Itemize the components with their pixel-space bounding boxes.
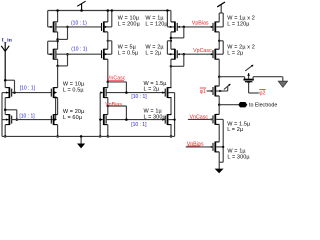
wire A bulk riser to rail bbox=[47, 11, 49, 27]
wire VnCasc horizontal bbox=[108, 81, 127, 83]
arrow A4 bulk (points right) bbox=[6, 118, 9, 120]
wire A4R diode loop to gate bbox=[52, 119, 56, 121]
junction VnBias node bbox=[107, 105, 110, 108]
wire A2 bulk lead bbox=[48, 53, 53, 55]
wire D4 source down bbox=[218, 152, 220, 162]
wire A4R source to ground rail bbox=[57, 125, 59, 137]
wire D1 source up bbox=[218, 13, 220, 22]
wire D2 bulk lead bbox=[216, 53, 223, 55]
svg-text:VnBias: VnBias bbox=[105, 102, 122, 108]
transistor D4 NMOS W=1u L=300u bbox=[212, 143, 214, 151]
svg-text:L = 0.5µ: L = 0.5µ bbox=[63, 88, 84, 94]
wire NMOS pair-1 gate row bbox=[12, 92, 52, 94]
svg-text:[10 : 1]: [10 : 1] bbox=[19, 114, 35, 120]
arrow C3 gate (points right) bbox=[162, 91, 165, 93]
wire D1 drain to D2 source bbox=[218, 32, 220, 49]
junction D2 bulk tie bbox=[218, 40, 220, 42]
junction VnCasc riser on row bbox=[125, 91, 128, 94]
transistor A3 NMOS W=10u L=0.5u bbox=[50, 89, 52, 97]
svg-text:L = 120µ: L = 120µ bbox=[145, 22, 168, 28]
junction C2 bulk tie bbox=[170, 40, 172, 42]
wire A1 diode loop riser bbox=[67, 27, 69, 40]
svg-text:L = 300µ: L = 300µ bbox=[144, 114, 167, 120]
wire A1 bulk lead bbox=[48, 26, 53, 28]
wire VnBias node to B4 drain bbox=[107, 106, 109, 115]
transistor S1 switch phi1 bbox=[212, 87, 214, 95]
svg-text:L = 120µ: L = 120µ bbox=[227, 22, 250, 28]
svg-text:to Electrode: to Electrode bbox=[249, 103, 277, 109]
junction B1 source on rail bbox=[107, 9, 110, 12]
ground symbol right bbox=[218, 162, 220, 169]
transistor A4R NMOS W=20u L=60u bbox=[50, 116, 52, 124]
wire M_in bulk lead bbox=[2, 92, 8, 94]
transistor A1 PMOS 10:1 ref (gate right) bbox=[55, 23, 57, 31]
svg-text:L = 2µ: L = 2µ bbox=[144, 87, 161, 93]
transistor B3 NMOS cascode (gate right) bbox=[105, 89, 107, 97]
wire VnCasc to D3 gate bbox=[188, 118, 214, 120]
junction A1 diode tap on gate row1 bbox=[66, 26, 69, 29]
wire left bulk rail down to ground bbox=[1, 93, 3, 137]
junction ground stem on rail bbox=[80, 135, 83, 138]
svg-text:L = 2µ: L = 2µ bbox=[227, 51, 244, 57]
arrow S1 gate (points right) bbox=[211, 90, 214, 92]
junction VnCasc node bbox=[107, 81, 110, 84]
transistor M_in NMOS input diode (mirrored) bbox=[11, 89, 13, 97]
transistor C4 NMOS W=1u L=300u bbox=[164, 116, 166, 124]
junction VpCasc loop tap bbox=[183, 53, 186, 56]
svg-text:I_in: I_in bbox=[2, 37, 13, 43]
junction VpBias loop tap bbox=[183, 26, 186, 29]
wire B2 drain down to VnCasc node bbox=[107, 59, 109, 82]
svg-text:L = 200µ: L = 200µ bbox=[118, 22, 141, 28]
wire B2 bulk loop riser bbox=[111, 41, 113, 54]
wire A1 diode loop horizontal bbox=[58, 38, 68, 40]
wire C bulk rail to ground bbox=[174, 93, 176, 137]
wire A4R diode loop riser bbox=[55, 98, 57, 120]
wire bias gate row to C4 bbox=[106, 119, 165, 121]
wire VnCasc riser down bbox=[125, 82, 127, 93]
wire D1 bulk up bbox=[222, 13, 224, 27]
transistor A2 PMOS (gate right) bbox=[55, 50, 57, 58]
wire electrode node down to D3 drain bbox=[218, 105, 220, 115]
junction B4 bulk tap bbox=[99, 119, 101, 121]
wire C1 bulk lead bbox=[167, 26, 174, 28]
transistor D3 NMOS W=1.5u L=2u bbox=[212, 115, 214, 123]
wire PMOS gate row 1 bbox=[56, 26, 102, 28]
arrow C2 gate (points left) bbox=[177, 53, 179, 55]
wire A4 diode riser bbox=[16, 110, 18, 120]
junction I_in node bbox=[4, 79, 7, 82]
arrow D1 gate (points right) bbox=[211, 26, 214, 28]
wire D1 bulk lead bbox=[216, 26, 223, 28]
wire A2 bulk loop horizontal bbox=[48, 40, 58, 42]
wire B2 bulk loop horizontal bbox=[108, 40, 112, 42]
wire A1 source to rail bbox=[57, 11, 59, 22]
wire C bulk riser to rail bbox=[166, 11, 168, 27]
wire C4 source to ground rail bbox=[170, 125, 172, 137]
wire D2 drain down to switch node bbox=[218, 59, 220, 76]
wire C2 bulk lead bbox=[167, 53, 174, 55]
wire VpCasc net bbox=[177, 53, 211, 55]
ground symbol left bbox=[80, 136, 82, 143]
junction pair-2 gate tie bbox=[16, 118, 19, 121]
svg-text:φ1: φ1 bbox=[200, 89, 206, 95]
wire switch node to S2 bbox=[219, 76, 244, 78]
arrow B1 bulk (points right) bbox=[105, 26, 108, 28]
svg-text:φ2: φ2 bbox=[259, 90, 265, 96]
power VDD symbol 1 bbox=[81, 4, 83, 11]
junction A1 source on rail bbox=[56, 9, 59, 12]
junction to-Electrode node bbox=[218, 103, 221, 106]
junction A2 bulk tie bbox=[56, 40, 58, 42]
svg-text:L = 2µ: L = 2µ bbox=[227, 127, 244, 133]
wire B1 drain to B2 source bbox=[107, 32, 109, 49]
svg-text:[10 : 1]: [10 : 1] bbox=[20, 86, 36, 92]
svg-text:VnCasc: VnCasc bbox=[190, 114, 209, 120]
junction B4 source on ground rail bbox=[107, 135, 110, 138]
junction VDD stem on rail bbox=[80, 9, 83, 12]
arrow C2 bulk (points left) bbox=[169, 53, 172, 55]
transistor C1 PMOS W=1u L=120u (gate right) bbox=[176, 23, 178, 31]
wire C column down to C3 drain bbox=[170, 59, 172, 87]
wire C1 diode loop horizontal bbox=[171, 37, 184, 39]
wire C1 diode loop down bbox=[183, 27, 185, 38]
svg-text:[10 : 1]: [10 : 1] bbox=[131, 94, 147, 100]
arrow B2 bulk (points right) bbox=[105, 53, 108, 55]
wire PMOS gate row 2 bbox=[56, 53, 102, 55]
junction D4 bulk tap bbox=[222, 146, 224, 148]
transistor C2 PMOS W=2u L=2u (gate right) bbox=[176, 50, 178, 58]
junction B bulk on rail bbox=[111, 9, 114, 12]
arrow C1 gate (points left) bbox=[177, 26, 179, 28]
wire A4 diode node horizontal bbox=[5, 109, 17, 111]
power VDD symbol 2 bbox=[220, 5, 222, 13]
junction C1 drain tie bbox=[170, 37, 173, 40]
junction A4R source on ground rail bbox=[56, 135, 59, 138]
wire D3 bulk lead bbox=[216, 118, 223, 120]
wire switch node down to S1 drain bbox=[218, 77, 220, 86]
wire D bulk rail lower bbox=[222, 119, 224, 162]
wire VnBias riser down bbox=[125, 106, 127, 120]
wire S1 source down to electrode node bbox=[218, 96, 220, 105]
arrow C4 gate (points right) bbox=[162, 118, 165, 120]
arrow B4 bulk (points right) bbox=[100, 118, 103, 120]
wire A2 diode loop horizontal bbox=[58, 65, 68, 67]
wire I_in node to M_in drain bbox=[4, 80, 6, 87]
junction C bulk on rail bbox=[166, 9, 169, 12]
wire ground rail bbox=[2, 135, 175, 137]
port I_in input arrow bbox=[4, 42, 6, 80]
svg-text:[10 : 1]: [10 : 1] bbox=[131, 122, 147, 128]
wire A2 bulk loop riser bbox=[47, 41, 49, 54]
transistor D1 PMOS W=1u x2 L=120u bbox=[212, 23, 214, 31]
wire C2 bulk loop riser bbox=[166, 41, 168, 54]
arrow B3 bulk (points right) bbox=[100, 91, 103, 93]
S2 bulk stub and indicator bbox=[248, 73, 250, 79]
wire I_in diode riser bbox=[14, 80, 16, 92]
arrow A1 bulk (points left) bbox=[49, 26, 52, 28]
junction A2 diode tap on gate row2 bbox=[66, 53, 69, 56]
wire B3 bulk lead bbox=[100, 92, 102, 94]
wire A2 drain down bbox=[57, 59, 59, 66]
wire A4 bulk lead bbox=[2, 119, 8, 121]
S1 switch indicator bbox=[216, 90, 228, 92]
wire C3 source down to C4 drain bbox=[170, 98, 172, 115]
wire to electrode port bbox=[219, 104, 238, 106]
wire C1 source to rail (rail end) bbox=[170, 11, 172, 22]
wire D3 source to D4 drain bbox=[218, 124, 220, 141]
svg-text:L = 2µ: L = 2µ bbox=[145, 51, 162, 57]
junction A4R diode tap bbox=[54, 96, 56, 98]
arrow A3 bulk (points right) bbox=[54, 91, 57, 93]
junction B bulk on ground rail bbox=[99, 135, 102, 138]
wire C2 diode loop down bbox=[183, 54, 185, 66]
arrow D2 gate (points right) bbox=[211, 53, 214, 55]
wire C2 diode loop horizontal bbox=[171, 65, 184, 67]
wire ground merge bbox=[219, 161, 223, 163]
svg-text:VpBias: VpBias bbox=[192, 20, 209, 26]
svg-text:L = 60µ: L = 60µ bbox=[63, 115, 83, 121]
svg-text:VnBias: VnBias bbox=[187, 141, 204, 147]
svg-text:(10 : 1): (10 : 1) bbox=[71, 21, 87, 27]
arrow A4R bulk (points right) bbox=[54, 118, 57, 120]
junction A2 drain tie bbox=[56, 65, 59, 68]
wire B4 bulk lead bbox=[100, 119, 102, 121]
wire A1 drain down bbox=[57, 32, 59, 40]
arrow D3 gate (points right) bbox=[211, 118, 214, 120]
wire A4 source to ground rail bbox=[4, 125, 6, 137]
wire B1 bulk lead bbox=[105, 26, 112, 28]
svg-text:L = 0.5µ: L = 0.5µ bbox=[118, 51, 139, 57]
wire A column down to A3 drain bbox=[57, 66, 59, 88]
wire C2 bulk loop horizontal bbox=[167, 40, 171, 42]
junction C2 drain tie bbox=[170, 65, 173, 68]
transistor C3 NMOS W=1.5u L=2u bbox=[164, 89, 166, 97]
junction VnBias riser on row bbox=[125, 118, 128, 121]
wire D2 bulk loop riser bbox=[222, 41, 224, 54]
transistor A4 NMOS (mirrored) bbox=[11, 116, 13, 124]
wire VDD top rail bbox=[48, 10, 171, 12]
wire A2 diode loop riser bbox=[67, 54, 69, 66]
port to Electrode bbox=[238, 102, 247, 107]
wire D1 source/bulk join bbox=[219, 12, 223, 14]
transistor B1 PMOS W=10u L=200u bbox=[101, 23, 103, 31]
junction A1 drain tie bbox=[56, 38, 59, 41]
junction switch node bbox=[218, 75, 221, 78]
transistor D2 PMOS W=2u x2 L=2u bbox=[212, 50, 214, 58]
S2 gate stem to phi2 bbox=[247, 81, 249, 83]
wire M_in source down bbox=[4, 98, 6, 110]
wire to A4 drain bbox=[4, 110, 6, 115]
transistor B2 PMOS W=5u L=0.5u bbox=[101, 50, 103, 58]
wire D4 bulk lead bbox=[216, 146, 223, 148]
wire B2 bulk lead bbox=[105, 53, 112, 55]
arrow C1 bulk (points left) bbox=[169, 26, 172, 28]
junction B2 bulk tie bbox=[107, 40, 109, 42]
wire VnBias to D4 gate bbox=[186, 146, 214, 148]
wire A1 drain to A2 source bbox=[57, 39, 59, 49]
off-page connector arrow (gray) bbox=[282, 77, 284, 82]
svg-text:VpCasc: VpCasc bbox=[193, 48, 212, 54]
wire B3 source to VnBias node bbox=[107, 98, 109, 106]
wire VnCasc node to B3 drain bbox=[107, 82, 109, 88]
arrow M_in bulk (points right) bbox=[6, 91, 9, 93]
wire B4 source to ground rail bbox=[107, 125, 109, 137]
wire C1 drain to C2 source bbox=[170, 32, 172, 49]
wire VpBias net bbox=[177, 26, 211, 28]
junction A4 source on ground rail bbox=[4, 135, 7, 138]
wire A3 source down to A4R drain bbox=[57, 98, 59, 115]
wire VnBias horizontal bbox=[108, 105, 127, 107]
wire I_in node horizontal bbox=[5, 79, 14, 81]
arrow D4 gate (points right) bbox=[211, 146, 214, 148]
wire S2 to off-page arrow bbox=[253, 76, 282, 78]
wire D2 bulk loop horizontal bbox=[219, 40, 223, 42]
junction C4 source on ground rail bbox=[170, 135, 173, 138]
wire NMOS pair-2 gate row bbox=[12, 119, 52, 121]
transistor B4 NMOS bias (gate right) bbox=[105, 116, 107, 124]
junction pair-1 gate tie bbox=[13, 91, 16, 94]
wire S1 gate from phi1 label bbox=[207, 90, 214, 92]
wire B1 bulk riser bbox=[111, 11, 113, 27]
arrow A2 bulk (points left) bbox=[49, 53, 52, 55]
wire B bulk rail to ground bbox=[99, 93, 101, 137]
wire C4 bulk lead bbox=[168, 119, 174, 121]
wire C3 bulk lead bbox=[168, 92, 174, 94]
wire B1 source to rail bbox=[107, 11, 109, 22]
junction A4 diode node bbox=[4, 109, 7, 112]
svg-text:L = 300µ: L = 300µ bbox=[227, 154, 250, 160]
svg-text:(10 : 1): (10 : 1) bbox=[71, 47, 87, 53]
junction C4 bulk tap bbox=[174, 119, 176, 121]
wire cascode gate row to C3 bbox=[106, 92, 165, 94]
